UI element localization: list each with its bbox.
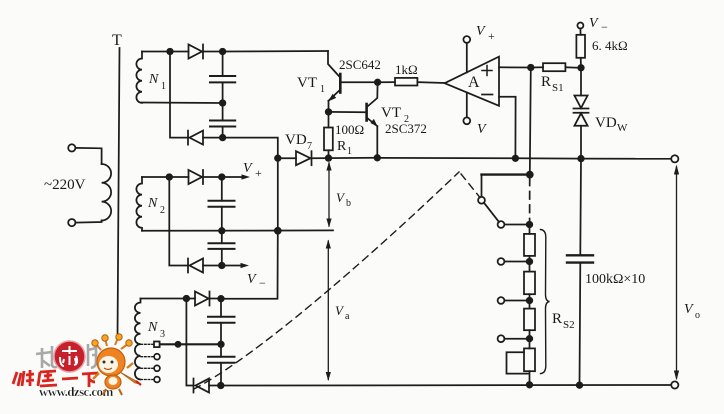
wire node A2 to diode D3 (169, 176, 188, 178)
wire top rail corner to VT1 collector (328, 51, 339, 77)
label 6.4kohm (592, 38, 628, 53)
label VT2 (381, 105, 409, 125)
wire tap contact 1 to node M3 (160, 343, 221, 345)
resistor RS2d (trim) (524, 348, 535, 371)
svg-text:T: T (112, 32, 122, 49)
label V- top (589, 16, 608, 34)
node M junction (220, 100, 226, 106)
wire node A2 down to diode D4 (169, 177, 188, 266)
wire backbone rail down to N3 (221, 231, 278, 299)
label 2SC372 (385, 121, 427, 136)
wire diode D4 to node N2b (203, 265, 222, 267)
wire N3 top to node A3 (141, 298, 187, 300)
wire rail feedback node to VDW node (515, 157, 581, 159)
wire tap node 1 to resistor RS2b (529, 262, 531, 272)
node A3 junction (184, 296, 190, 302)
diode D3 (N2 positive rectifier) (189, 170, 204, 184)
svg-text:A: A (468, 74, 480, 91)
wire op-amp V supply (466, 92, 468, 117)
label N1 (148, 72, 166, 92)
node R1 bottom junction (326, 155, 332, 161)
wire rail R1 node to VT2 emitter node (329, 157, 378, 159)
svg-text:o: o (695, 310, 700, 321)
node wiper tie junction (527, 172, 533, 178)
svg-text:www.dzsc.com: www.dzsc.com (39, 384, 113, 399)
wire node B to VT1 collector feed (223, 50, 328, 53)
wire node N2b to V- arrow (222, 263, 249, 268)
svg-text:2SC372: 2SC372 (385, 121, 427, 136)
wire diode D2 to node N (203, 137, 223, 139)
brace RS2 (541, 230, 550, 374)
svg-text:6. 4kΩ: 6. 4kΩ (592, 38, 628, 53)
wire N2 top to node A2 (142, 176, 169, 178)
tap lead 1 dotted (141, 343, 154, 345)
wire node A3 down to diode D6 (186, 299, 193, 386)
wire rail VT2 node to feedback node (377, 157, 515, 160)
wire node A3 to diode D5 (186, 298, 195, 300)
tap selector contact 4 (154, 377, 160, 383)
resistor RS2a (524, 234, 535, 256)
svg-text:V: V (589, 16, 599, 31)
wire tap node 3 to resistor RS2d (529, 339, 531, 349)
wire capacitor C2 to node N (222, 127, 224, 138)
transistor VT1 emitter with arrow (328, 90, 340, 102)
capacitor C1 (210, 76, 235, 82)
op-amp label A (468, 74, 480, 91)
dashed link to RS2 chain (529, 178, 531, 222)
wire capacitor C1 to node M (222, 82, 224, 103)
node B2 junction (219, 174, 225, 180)
svg-text:−: − (601, 20, 608, 34)
wire zener VDW to rail (580, 126, 582, 159)
tap selector contact 2 (154, 354, 160, 360)
wiper pivot contact (478, 197, 485, 204)
node Q junction (VT1 base / VT2 collector / 1k) (375, 80, 381, 86)
wire AC bottom to primary (76, 221, 102, 223)
op-amp V supply terminal (463, 117, 470, 124)
wire RS2a to tap node 1 (529, 256, 531, 262)
node B junction (220, 49, 226, 55)
wire node Q down to VT2 collector (368, 82, 378, 106)
wire resistor 6.4k to reference node (580, 58, 582, 68)
node rail left junction (275, 155, 281, 161)
transformer T label (112, 32, 122, 49)
wire diode D5 to node B3 (210, 298, 222, 300)
bottom rail left node junction (218, 383, 224, 389)
node N junction (220, 135, 226, 141)
wire node M3 to capacitor C6 (220, 344, 222, 357)
label VT1 (297, 75, 325, 95)
svg-text:V: V (477, 122, 487, 137)
node A junction (167, 49, 173, 55)
node chain bottom junction (527, 382, 533, 388)
resistor 1k (395, 78, 417, 86)
diode D6 (N3 negative rectifier) (194, 379, 210, 393)
label VDW (595, 115, 628, 134)
primary winding (102, 164, 112, 221)
label Vo (684, 302, 700, 321)
wire node S down to wiper tie (530, 68, 531, 175)
wire N2 bottom mid-rail to Vb reference line (142, 229, 333, 231)
transistor VT1 base bar (339, 74, 342, 93)
svg-text:VT: VT (297, 75, 317, 91)
wire capacitor C5 to node M3 (220, 323, 222, 345)
svg-text:7: 7 (307, 141, 312, 152)
filter capacitor (567, 255, 593, 262)
label 100kohm x10 (585, 272, 645, 287)
dashed mechanical link to wiper (461, 174, 480, 198)
wire V- terminal to resistor 6.4k (579, 29, 581, 35)
wire RS2d to bottom rail (529, 371, 531, 385)
wire node B2 to V+ arrow (222, 174, 250, 179)
node VT2 emitter junction (375, 155, 381, 161)
label R1 (337, 139, 352, 157)
output positive terminal (671, 155, 678, 162)
wire capacitor C3 to node M2 (221, 207, 223, 231)
AC input terminal bottom (68, 219, 75, 226)
diode D2 (N1 negative rectifier) (188, 131, 203, 145)
wire wiper tie horizontal (482, 173, 530, 175)
diode D5 (N3 positive rectifier) (195, 292, 210, 306)
wire rail down to filter capacitor (579, 159, 582, 255)
svg-text:−: − (259, 276, 266, 290)
wire rail down to midrail junction (277, 158, 279, 231)
svg-text:100kΩ×10: 100kΩ×10 (585, 272, 645, 287)
transistor VT2 emitter with arrow (367, 118, 378, 127)
svg-text:b: b (346, 198, 351, 209)
svg-text:~220V: ~220V (44, 177, 86, 193)
dimension Va arrow (326, 240, 331, 382)
dashed mechanical link main (194, 172, 459, 389)
label RS2 (552, 311, 575, 331)
capacitor C3 (209, 201, 235, 207)
wire VT1 base to node Q (342, 81, 378, 83)
svg-text:W: W (617, 122, 628, 134)
node M2 junction (219, 228, 225, 234)
wire VT2 base to node P (329, 111, 366, 113)
chain tap 1 contact (498, 258, 505, 265)
output negative terminal (671, 381, 678, 388)
node chain tap 2 junction (527, 298, 533, 304)
tap wiper junction dot (175, 342, 180, 347)
wire rail VDW node to output terminal (581, 158, 671, 160)
wire VT1 emitter down to node P (328, 101, 330, 112)
wire op-amp plus input to node S (499, 66, 531, 68)
wire resistor R1 to rail (328, 150, 330, 158)
tap selector contact 1 (engaged, square) (154, 342, 160, 348)
svg-text:R: R (552, 311, 562, 327)
svg-text:VD: VD (285, 132, 307, 148)
wire RS1 to reference node (565, 66, 581, 69)
winding N3 (135, 299, 141, 380)
svg-text:R: R (541, 74, 551, 90)
svg-text:N: N (147, 196, 158, 211)
svg-text:2SC642: 2SC642 (339, 57, 381, 72)
node chain tap 1 junction (527, 259, 533, 265)
svg-text:V: V (247, 272, 257, 287)
capacitor C5 (208, 317, 235, 323)
wire diode D3 to node B2 (203, 176, 222, 178)
wire node M to capacitor C2 (222, 103, 224, 121)
capacitor C2 (210, 121, 235, 127)
tap lead 3 dotted (141, 367, 154, 369)
svg-text:1: 1 (347, 146, 352, 157)
wire op-amp minus input to rail (499, 97, 516, 159)
label op-amp V (477, 122, 487, 137)
svg-text:V: V (476, 24, 486, 39)
node feedback junction (513, 156, 519, 162)
node P junction (VT1 emitter / VT2 base / R1) (326, 109, 332, 115)
wire chain top to resistor RS2a (529, 225, 531, 234)
svg-text:+: + (255, 166, 262, 180)
wire wiper tie down to wiper pivot (481, 175, 483, 197)
wire selected contact to RS2 chain top (504, 224, 529, 226)
label Va (335, 303, 350, 322)
svg-text:1: 1 (320, 84, 325, 95)
node A2 junction (167, 174, 173, 180)
label ~220V (44, 177, 86, 193)
svg-text:2: 2 (160, 205, 165, 216)
wire capacitor C4 to node N2b (221, 249, 223, 266)
wire node B2 down to capacitor C3 (221, 177, 223, 201)
wire rail to diode VD7 (278, 157, 296, 159)
watermark logo group (decorative, not labelled further) (13, 334, 141, 399)
capacitor C4 (209, 243, 235, 249)
svg-text:R: R (337, 139, 347, 154)
svg-text:S1: S1 (552, 82, 564, 94)
winding N2 (136, 177, 142, 231)
winding N1 (136, 52, 142, 103)
label 1kohm (395, 62, 418, 77)
capacitor C6 (208, 357, 235, 363)
resistor RS2b (524, 272, 535, 295)
resistor RS1 (543, 63, 565, 71)
tap lead 4 dotted (141, 379, 154, 381)
wire diode D6 to bottom rail node (209, 385, 221, 387)
label 2SC642 (339, 57, 381, 72)
AC input terminal top (68, 144, 75, 151)
wire node N to main rail corner (223, 138, 278, 159)
chain tap 2 contact (498, 297, 505, 304)
diode VD7 (series output diode) (296, 151, 312, 165)
wire node B3 down to capacitor C5 (220, 299, 222, 317)
svg-text:S2: S2 (563, 319, 575, 331)
label V- (op-amp negative supply source) (247, 272, 266, 290)
svg-text:N: N (148, 72, 159, 87)
wire reference node to zener VDW (580, 68, 582, 96)
wire node A down to diode D2 (170, 52, 188, 138)
label Vb (336, 190, 351, 209)
zener diode VDW (574, 96, 589, 126)
chain tap 3 contact (498, 335, 505, 342)
wire filter capacitor to bottom rail (579, 263, 582, 386)
resistor R1 (324, 128, 333, 151)
dimension Vb arrow (326, 162, 331, 228)
wire RS2d trim tap link (507, 352, 529, 373)
wiper selected contact (498, 221, 505, 228)
wire tap node 2 to resistor RS2c (529, 301, 531, 309)
svg-text:a: a (345, 311, 350, 322)
svg-text:1kΩ: 1kΩ (395, 62, 418, 77)
node M3 junction (218, 342, 224, 348)
label N3 (147, 320, 165, 340)
V- auxiliary terminal (577, 23, 583, 29)
transistor VT2 base bar (365, 104, 368, 121)
transformer T core (118, 48, 120, 337)
wire node B down to capacitor C1 (222, 52, 224, 77)
wire RS2c to tap node 3 (529, 330, 531, 339)
op-amp plus input sign (482, 66, 492, 76)
node chain tap 3 junction (527, 336, 533, 342)
node B3 junction (218, 296, 224, 302)
wire node A to diode D1 (170, 51, 189, 53)
svg-text:VT: VT (381, 105, 401, 121)
op-amp A triangle (445, 57, 499, 106)
wire RS2b to tap node 2 (529, 294, 531, 300)
node VDW bottom junction (578, 156, 584, 162)
wire node M2 to capacitor C4 (221, 231, 223, 243)
wire diode D1 to node B (203, 51, 223, 53)
svg-text:+: + (488, 29, 495, 43)
node N2b junction (219, 263, 225, 269)
op-amp V+ supply terminal (463, 36, 470, 43)
resistor RS2c (524, 309, 535, 331)
wire capacitor C6 to bottom rail (220, 363, 222, 386)
wiper arm (484, 203, 499, 222)
wire node S to RS1 (531, 66, 543, 68)
tap lead 2 dotted (141, 356, 154, 358)
node reference junction (578, 65, 584, 71)
svg-text:VD: VD (595, 115, 617, 131)
wire resistor 1k to op-amp output (417, 81, 444, 84)
node filter capacitor bottom junction (577, 382, 583, 388)
label 100ohm (335, 122, 364, 137)
svg-text:1: 1 (161, 81, 166, 92)
tap selector contact 3 (154, 365, 160, 371)
bottom rail wire (221, 384, 671, 387)
node S junction (plus input / RS1 / sampling) (528, 65, 534, 71)
dimension Vo arrow (674, 165, 679, 381)
svg-text:V: V (684, 302, 694, 317)
svg-text:V: V (243, 161, 253, 176)
wire node Q to resistor 1k (378, 81, 395, 83)
label N2 (147, 196, 165, 216)
diode D1 (N1 positive rectifier) (189, 45, 204, 59)
label op-amp V+ (476, 24, 495, 43)
svg-text:100Ω: 100Ω (335, 122, 364, 137)
wire tap 1 contact to chain (504, 261, 529, 263)
wire node P to resistor R1 (328, 112, 330, 128)
wire tap 2 contact to chain (504, 300, 529, 302)
node rail-to-midrail junction (275, 228, 281, 234)
label VD7 (285, 132, 312, 152)
wire N1 bottom to node M (142, 102, 223, 105)
wire N1 top to node A (142, 51, 170, 53)
wire op-amp V+ supply (466, 43, 468, 72)
wire tap 3 contact to chain (504, 338, 529, 340)
label RS1 (541, 74, 564, 94)
wire VT2 emitter down to rail (376, 126, 378, 158)
op-amp minus input sign (482, 94, 493, 96)
node RS2 chain top junction (527, 222, 533, 228)
diode D4 (N2 negative rectifier) (188, 259, 203, 273)
label V+ (op-amp positive supply source) (243, 161, 262, 180)
wire diode VD7 to R1 node (312, 157, 329, 159)
wire AC top to primary (76, 148, 102, 164)
svg-text:N: N (147, 320, 158, 335)
svg-text:3: 3 (160, 329, 165, 340)
resistor 6.4k (576, 35, 585, 58)
